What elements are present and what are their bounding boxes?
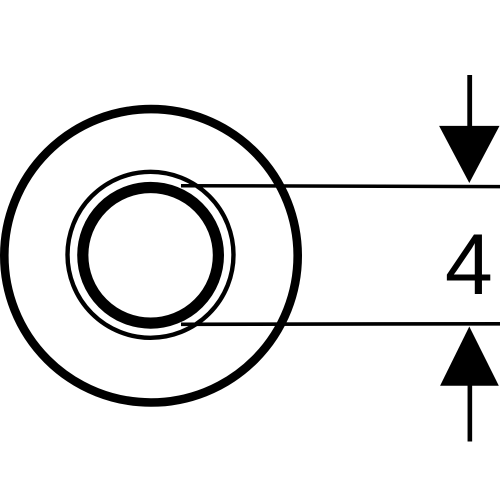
middle circle (thin flange ring) <box>68 172 234 338</box>
svg-text:4: 4 <box>445 217 493 313</box>
lower dimension leader line <box>468 385 473 442</box>
lower arrowhead (points up) <box>440 327 499 386</box>
upper dimension leader line <box>467 75 472 130</box>
upper arrowhead (points down) <box>439 126 499 183</box>
upper extension line <box>181 184 500 188</box>
lower extension line <box>181 322 500 326</box>
inner circle (thick bore ring) <box>83 188 219 324</box>
outer circle (tube outer wall) <box>4 109 297 402</box>
